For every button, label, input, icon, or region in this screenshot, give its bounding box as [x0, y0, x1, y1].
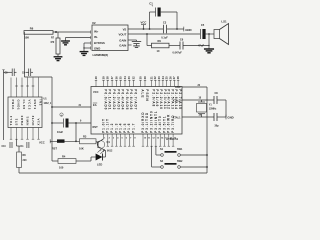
capacitor C2 on GAIN pin to ground — [128, 40, 141, 47]
svg-text:ALE: ALE — [140, 89, 144, 98]
wire LM386 IN- to ground — [66, 38, 91, 41]
label LM386M(8) — [93, 53, 109, 57]
wire crystal caps to ground flag — [225, 100, 227, 117]
capacitor C6 0.047uF (zobel) — [173, 37, 184, 54]
node C4-RST junction — [75, 122, 77, 124]
svg-text:GAIN: GAIN — [119, 38, 126, 42]
wire R6 output to LM386 IN+ — [53, 31, 91, 33]
crystal Y1 12MHz — [197, 100, 218, 117]
svg-text:P1.7: P1.7 — [132, 123, 136, 133]
wire emitter to LED — [103, 151, 106, 157]
svg-text:R6: R6 — [30, 26, 34, 30]
transistor Q1 9012 — [96, 134, 113, 153]
svg-text:OUT2: OUT2 — [31, 115, 35, 126]
power flag VCC reset row — [39, 139, 52, 144]
capacitor C9 30pF — [214, 113, 226, 127]
switch RST reset button — [52, 139, 80, 150]
svg-text:BYPASS: BYPASS — [94, 41, 105, 45]
svg-text:10K: 10K — [79, 147, 84, 151]
wire zobel drop — [147, 34, 152, 46]
svg-text:C5: C5 — [201, 23, 205, 27]
svg-text:AT89C51: AT89C51 — [166, 137, 179, 141]
svg-text:9012: 9012 — [107, 150, 113, 153]
svg-text:28: 28 — [176, 76, 180, 79]
node supply junction dots — [143, 28, 178, 30]
svg-text:27: 27 — [172, 76, 176, 79]
wire LM386 GND pin joins bypass ground — [83, 47, 90, 48]
svg-text:R4: R4 — [62, 154, 66, 158]
svg-text:P0.5/AD5: P0.5/AD5 — [125, 89, 129, 110]
label U1 1232_1 — [44, 97, 52, 104]
svg-text:36: 36 — [114, 76, 118, 79]
capacitor C4 10uF reset — [52, 113, 91, 134]
resistor R9 10 (zobel) — [152, 39, 170, 53]
svg-text:47uF: 47uF — [198, 43, 204, 47]
LED D1 — [96, 149, 105, 166]
svg-text:0.047uF: 0.047uF — [173, 52, 183, 55]
svg-text:25: 25 — [165, 76, 169, 79]
wire reset node down — [75, 123, 77, 141]
svg-text:IN2: IN2 — [38, 100, 42, 107]
svg-text:ST2: ST2 — [14, 118, 18, 125]
wire VOUT output line — [128, 33, 214, 35]
wire bottom ground return — [19, 172, 207, 174]
svg-text:PB0A: PB0A — [11, 100, 15, 111]
svg-text:IN-: IN- — [94, 35, 98, 39]
svg-text:10uF: 10uF — [57, 130, 63, 134]
node reset row junction — [75, 140, 77, 142]
svg-text:30: 30 — [138, 76, 142, 79]
ground at IN- — [61, 41, 70, 45]
svg-text:VS: VS — [123, 28, 127, 32]
wire LM386 BYPASS pin to ground — [84, 43, 91, 51]
svg-text:RST: RST — [52, 148, 57, 151]
svg-text:38: 38 — [106, 76, 110, 79]
ground at BYPASS/GND — [80, 52, 89, 56]
svg-text:GND: GND — [227, 116, 233, 120]
svg-text:EA: EA — [93, 103, 97, 107]
svg-text:GND: GND — [185, 28, 191, 32]
svg-text:SW2: SW2 — [177, 160, 183, 163]
svg-text:P2.0/A8: P2.0/A8 — [151, 89, 155, 107]
label AT89C51 — [166, 137, 179, 141]
capacitor C10 below U1 — [2, 142, 13, 148]
U1 bottom pins — [10, 128, 40, 140]
svg-text:37: 37 — [110, 76, 114, 79]
svg-text:32: 32 — [132, 76, 136, 79]
wire C1 right leg — [176, 12, 178, 29]
resistor R8 220 — [17, 139, 28, 168]
svg-text:P0.2/AD2: P0.2/AD2 — [112, 89, 116, 110]
svg-text:39: 39 — [101, 76, 105, 79]
svg-text:10K: 10K — [24, 36, 29, 40]
svg-text:U2: U2 — [92, 21, 96, 25]
node rail-C4 junction — [51, 122, 53, 124]
wire rail to R4 — [52, 160, 58, 162]
node S1 to rail — [206, 154, 208, 156]
svg-text:X1A: X1A — [36, 117, 40, 125]
svg-text:LS1: LS1 — [221, 20, 227, 24]
capacitor C7 keypad left — [5, 69, 17, 77]
svg-text:P2.4/A12: P2.4/A12 — [167, 89, 171, 110]
resistor R7 1K (vertical to ground) — [50, 32, 60, 54]
svg-text:220: 220 — [23, 159, 28, 162]
MCU pin GND (20) wire to ground rail — [175, 85, 207, 89]
capacitor C5 47uF output coupling — [198, 23, 206, 47]
svg-text:21: 21 — [149, 76, 153, 79]
svg-text:SW1: SW1 — [177, 148, 183, 151]
ground flag GND crystal — [226, 115, 234, 120]
capacitor C9 keypad right — [22, 69, 33, 77]
svg-text:C3: C3 — [163, 20, 167, 24]
ground rail right side — [206, 87, 208, 173]
svg-text:GAIN: GAIN — [119, 43, 126, 47]
svg-text:GND1: GND1 — [16, 100, 20, 111]
svg-text:C6: C6 — [180, 37, 184, 41]
MCU top pins with pin numbers — [94, 76, 180, 87]
svg-text:VCC: VCC — [39, 141, 45, 145]
wire left loop from R6 down to audio rail — [24, 32, 52, 161]
resistor R3 10K — [79, 135, 96, 151]
svg-text:22: 22 — [153, 76, 157, 79]
svg-text:24: 24 — [161, 76, 165, 79]
MCU pin RST (9) label — [80, 121, 98, 130]
svg-text:P0.1/AD1: P0.1/AD1 — [108, 89, 112, 110]
svg-text:12MHz: 12MHz — [209, 108, 217, 111]
svg-text:VCC: VCC — [141, 20, 147, 24]
svg-text:P0.6/AD6: P0.6/AD6 — [129, 89, 133, 110]
node rail-EA junction — [51, 106, 53, 108]
svg-text:P2.1/A9: P2.1/A9 — [155, 89, 159, 107]
svg-text:LM386M(8): LM386M(8) — [93, 53, 109, 57]
svg-text:P0.3/AD3: P0.3/AD3 — [116, 89, 120, 110]
svg-text:0.1uF: 0.1uF — [161, 37, 168, 40]
svg-text:RST: RST — [93, 125, 99, 129]
svg-text:26: 26 — [168, 76, 172, 79]
svg-text:LED: LED — [97, 162, 102, 166]
svg-text:C11: C11 — [20, 146, 25, 148]
capacitor C8 30pF — [214, 92, 226, 104]
svg-text:P0.7/AD7: P0.7/AD7 — [134, 89, 138, 110]
svg-text:P3.7/RD: P3.7/RD — [171, 115, 175, 133]
ground flag GND after C3 — [184, 27, 192, 32]
wire R8 to bottom return — [18, 168, 20, 174]
resistor R4 100 — [58, 154, 76, 169]
svg-text:30p: 30p — [215, 124, 220, 127]
watchdog U1 1232 body — [8, 97, 42, 128]
node S2 to rail — [206, 166, 208, 168]
capacitor C1 10uF gain (pins 1-8) — [149, 2, 177, 17]
svg-text:34: 34 — [123, 76, 127, 79]
wires keypad column into U1 — [11, 78, 39, 98]
svg-text:C10: C10 — [2, 146, 7, 148]
svg-text:XTAL2: XTAL2 — [173, 99, 181, 102]
svg-text:R3: R3 — [83, 135, 87, 139]
capacitor C3 0.1uF decoupling — [161, 20, 168, 39]
svg-text:470: 470 — [50, 41, 55, 44]
MCU interior port0/port2 labels — [93, 89, 182, 110]
wire left keypad rail — [2, 70, 9, 140]
capacitor C11 below U1 — [20, 142, 29, 148]
switch S2 pushbutton — [152, 146, 207, 168]
ground under speaker — [204, 49, 214, 53]
resistor R6 10K (input series resistor) — [24, 26, 53, 39]
svg-text:PBR0: PBR0 — [20, 115, 24, 126]
wire GAIN pin 2 stub — [128, 44, 132, 46]
wire VS supply rail (pin6) with C3 gap — [128, 28, 184, 30]
wire LED to R4 — [76, 157, 96, 161]
svg-text:33: 33 — [127, 76, 131, 79]
svg-text:VCC: VCC — [93, 90, 99, 94]
svg-text:23: 23 — [157, 76, 161, 79]
svg-text:29: 29 — [143, 76, 147, 79]
svg-text:VOUT: VOUT — [119, 32, 127, 36]
svg-text:100: 100 — [59, 165, 64, 169]
svg-text:PSEN: PSEN — [145, 89, 149, 101]
svg-text:VCC2: VCC2 — [27, 100, 31, 111]
node A junction dot at R6 output — [55, 31, 57, 33]
switch S1 pushbutton — [156, 146, 207, 156]
svg-text:P0.4/AD4: P0.4/AD4 — [121, 89, 125, 110]
power flag VCC for LM386 VS pin — [141, 20, 147, 29]
wire speaker node to ground — [208, 34, 210, 49]
microcontroller U4 AT89C51 body — [91, 87, 182, 135]
svg-text:R9: R9 — [158, 39, 162, 43]
svg-text:P0.0/AD0: P0.0/AD0 — [103, 89, 107, 110]
svg-text:P2.3/A11: P2.3/A11 — [163, 89, 167, 109]
node VOUT junctions — [146, 33, 210, 35]
svg-text:35: 35 — [119, 76, 123, 79]
svg-text:40: 40 — [94, 76, 98, 79]
MCU pin XTAL2 (18) wire — [173, 98, 214, 103]
ground under R7 — [54, 54, 63, 61]
wire C1 left leg — [149, 12, 151, 29]
svg-text:GND: GND — [94, 47, 100, 51]
wire R9 to C6 — [169, 45, 180, 47]
svg-text:1232_1: 1232_1 — [44, 103, 52, 105]
wire C6 to speaker ground node — [183, 45, 210, 46]
speaker LS1 — [214, 20, 229, 45]
svg-text:P2.2/A10: P2.2/A10 — [159, 89, 163, 110]
svg-text:GND: GND — [175, 86, 181, 89]
svg-text:IN+: IN+ — [94, 30, 99, 34]
MCU bottom pins port1/port3 with labels — [101, 110, 177, 146]
MCU pin XTAL1 (19) wire — [173, 115, 214, 120]
svg-text:CLK0: CLK0 — [22, 100, 26, 110]
MCU pin EA (31) wire to rail — [52, 103, 97, 107]
svg-text:RST1: RST1 — [33, 100, 37, 110]
svg-text:TOL1: TOL1 — [9, 115, 13, 125]
svg-text:NMI1: NMI1 — [25, 116, 29, 126]
op-amp U2 LM386 audio amplifier — [91, 21, 128, 51]
